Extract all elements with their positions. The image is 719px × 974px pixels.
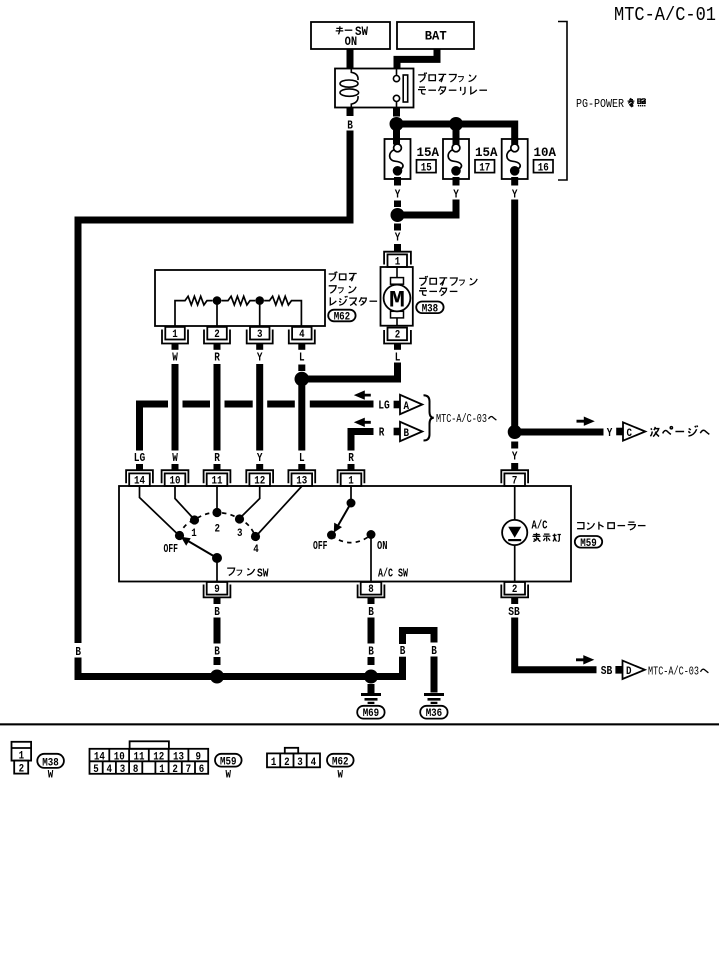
resistor node dot pin2: [213, 296, 222, 305]
connector oval M59 label: [575, 536, 602, 548]
relay label ブロアファンモーターリレー: [418, 72, 476, 82]
connector diagram M59: [90, 741, 209, 774]
connector diagram M62: [267, 748, 320, 768]
wire key SW to relay coil: [347, 49, 354, 70]
wire stub pin7: [511, 463, 518, 470]
svg-text:LG: LG: [134, 451, 146, 465]
wire branch top: [403, 631, 435, 645]
wire left bottom to ground bus: [78, 658, 371, 677]
wire L dash: [298, 365, 305, 372]
fan switch dashed selector arc: [180, 513, 256, 537]
resistor pin 3: [247, 327, 273, 344]
blower fan motor M1: [381, 267, 413, 326]
svg-text:4: 4: [299, 329, 305, 341]
connector diagram M38: [12, 742, 32, 774]
node junction dot motor feed: [391, 208, 405, 222]
connector oval M38: [416, 302, 443, 314]
svg-text:OFF: OFF: [313, 539, 328, 553]
wire LG horizontal with crossing gaps: [140, 404, 169, 451]
wire Y dash below node: [511, 442, 518, 449]
node ground bus dot 2: [364, 670, 378, 684]
blower fan resistor box M62: [155, 270, 325, 326]
triangle connector C: [623, 422, 645, 440]
pin 11 top: [204, 470, 231, 486]
pin 14 top: [126, 470, 153, 486]
svg-text:1: 1: [348, 475, 354, 487]
label ファンSW: [227, 568, 254, 575]
battery box BAT: [397, 22, 474, 49]
svg-text:11: 11: [134, 751, 145, 763]
fuse F15 15A: [385, 139, 411, 179]
control box M59 controller: [119, 486, 571, 582]
fuse F16 10A: [502, 139, 528, 179]
svg-text:1: 1: [271, 757, 277, 769]
svg-text:M62: M62: [332, 757, 349, 769]
svg-text:6: 6: [199, 764, 205, 776]
wire stub to fuse 1: [393, 124, 400, 145]
svg-text:Y: Y: [395, 188, 401, 202]
wire fuse feed bus: [397, 124, 515, 145]
connector oval M62 label: [328, 310, 355, 322]
relay K1 blower fan motor relay box: [335, 69, 414, 108]
svg-text:5: 5: [93, 764, 99, 776]
svg-text:L: L: [299, 351, 305, 365]
arrow right above SB: [576, 655, 594, 664]
resistor pin 1: [162, 327, 188, 344]
A/C switch dashed arc: [332, 535, 372, 543]
node L junction dot: [295, 372, 310, 387]
svg-text:B: B: [368, 605, 374, 619]
resistor pin stubs: [172, 344, 179, 350]
svg-text:MTC-A/C-03: MTC-A/C-03: [648, 665, 699, 679]
svg-text:D: D: [626, 666, 632, 678]
svg-text:16: 16: [538, 162, 549, 174]
svg-text:B: B: [214, 605, 220, 619]
svg-text:Y: Y: [512, 450, 518, 464]
wire dash below junction: [394, 224, 401, 231]
pin 10 top: [162, 470, 189, 486]
motor pin2 stub: [394, 344, 401, 350]
svg-text:13: 13: [173, 751, 184, 763]
svg-text:M36: M36: [426, 708, 443, 720]
svg-text:PG-POWER: PG-POWER: [576, 97, 624, 111]
svg-text:M38: M38: [422, 303, 439, 315]
arrow right above Y: [577, 417, 595, 426]
svg-text:W: W: [172, 451, 178, 465]
svg-text:BAT: BAT: [425, 29, 447, 44]
svg-text:ON: ON: [377, 539, 388, 553]
svg-text:W: W: [48, 770, 54, 782]
relay contact stub: [393, 108, 400, 117]
svg-text:M: M: [389, 288, 405, 314]
svg-text:4: 4: [253, 544, 259, 556]
svg-text:M69: M69: [363, 708, 380, 720]
pin9 wire stub: [214, 597, 221, 604]
svg-text:9: 9: [214, 584, 220, 596]
svg-text:Y: Y: [395, 231, 401, 245]
svg-text:7: 7: [186, 764, 192, 776]
svg-text:8: 8: [368, 584, 374, 596]
svg-text:Y: Y: [257, 351, 263, 365]
label 次ページへ: [650, 425, 709, 436]
svg-text:C: C: [627, 428, 633, 440]
wire Y vertical: [256, 364, 263, 451]
label コントローラー: [577, 522, 645, 530]
svg-text:1: 1: [191, 528, 197, 540]
wire L vertical: [298, 379, 305, 451]
svg-text:Y: Y: [453, 188, 459, 202]
pin 13 top: [288, 470, 315, 486]
svg-text:B: B: [368, 645, 374, 659]
ground oval M36: [420, 706, 447, 719]
wire B pin9 segment: [214, 618, 221, 644]
svg-text:14: 14: [134, 475, 145, 487]
arrow left above LG: [354, 390, 371, 399]
brace to MTC-A/C-03: [424, 395, 434, 440]
svg-text:L: L: [299, 451, 305, 465]
fuse 3 bottom stub: [511, 177, 518, 186]
wire R from pin1 to arrow B: [351, 432, 374, 451]
svg-text:10A: 10A: [534, 146, 557, 160]
ground oval M69: [357, 706, 384, 719]
wire B relay to left side down: [78, 131, 350, 644]
svg-text:2: 2: [19, 764, 25, 776]
svg-text:B: B: [404, 428, 410, 440]
motor M38 pin 1 connector: [384, 252, 411, 267]
wire branch to M36 ground: [371, 664, 403, 677]
svg-text:15: 15: [421, 162, 432, 174]
A/C switch contacts: [327, 531, 336, 540]
svg-text:A/C SW: A/C SW: [378, 566, 409, 580]
pin2 wire stub: [511, 597, 518, 604]
svg-text:Y: Y: [512, 188, 518, 202]
wire stubs above control box pins: [136, 464, 143, 470]
svg-text:2: 2: [512, 584, 518, 596]
svg-text:3: 3: [297, 757, 303, 769]
svg-text:2: 2: [215, 524, 221, 536]
svg-text:B: B: [400, 644, 406, 658]
A/C switch wire from pin1: [350, 486, 352, 500]
svg-text:W: W: [172, 351, 178, 365]
svg-text:R: R: [214, 351, 220, 365]
node Y junction dot: [508, 425, 522, 439]
svg-text:14: 14: [94, 751, 105, 763]
fuse F17 15A: [443, 139, 469, 179]
wire stub to fuse 2: [453, 124, 460, 145]
connector M38 oval: [37, 754, 64, 768]
svg-text:R: R: [214, 451, 220, 465]
svg-text:10: 10: [170, 475, 181, 487]
svg-text:3: 3: [237, 528, 243, 540]
connector M59 oval: [215, 754, 242, 767]
svg-text:3: 3: [120, 764, 126, 776]
svg-text:A/C: A/C: [532, 519, 548, 533]
triangle connector B: [400, 422, 422, 441]
pin 2 bottom: [501, 582, 528, 597]
wire B pin8 segment: [368, 618, 375, 644]
wire R vertical: [214, 364, 221, 451]
wire stub to motor pin1: [394, 244, 401, 252]
svg-text:17: 17: [479, 162, 490, 174]
svg-text:SB: SB: [601, 664, 613, 678]
pin 9 bottom: [204, 582, 231, 597]
svg-text:4: 4: [107, 764, 113, 776]
wire dash branch: [399, 657, 406, 664]
triangle connector A: [400, 395, 422, 414]
svg-text:1: 1: [159, 764, 165, 776]
motor M38 pin 2 connector: [384, 328, 411, 344]
relay coil output stub: [347, 108, 354, 117]
svg-text:12: 12: [254, 475, 265, 487]
separator line: [0, 723, 719, 725]
resistor pin 2: [204, 327, 230, 344]
svg-text:Y: Y: [607, 426, 613, 440]
svg-text:M62: M62: [334, 312, 351, 324]
svg-text:L: L: [395, 351, 401, 365]
A/C switch wiper arrow: [338, 503, 352, 527]
svg-text:4: 4: [311, 757, 317, 769]
svg-text:A: A: [404, 401, 410, 413]
wire motor L down-left to node: [302, 363, 398, 380]
pin 1 top: [338, 470, 365, 486]
wire branch right down: [431, 657, 438, 693]
svg-text:W: W: [226, 770, 232, 782]
svg-text:2: 2: [284, 757, 290, 769]
svg-text:MTC-A/C-03: MTC-A/C-03: [436, 412, 487, 426]
svg-text:B: B: [347, 119, 353, 133]
pin 7 top: [501, 470, 528, 486]
svg-text:9: 9: [196, 751, 202, 763]
svg-text:7: 7: [512, 475, 518, 487]
pin 12 top: [246, 470, 273, 486]
A/C ON to pin8: [370, 535, 372, 583]
svg-text:2: 2: [172, 764, 178, 776]
svg-text:12: 12: [153, 751, 164, 763]
resistor chain internal: [175, 296, 301, 326]
svg-text:11: 11: [212, 475, 223, 487]
svg-text:M38: M38: [42, 757, 59, 769]
svg-text:M59: M59: [220, 757, 237, 769]
svg-text:ON: ON: [345, 34, 358, 49]
motor label ブロアファンモーター: [419, 276, 477, 286]
svg-text:MTC-A/C-01: MTC-A/C-01: [614, 4, 716, 26]
wire dash pin8: [368, 657, 375, 665]
resistor pin 4: [289, 327, 315, 344]
svg-text:Y: Y: [257, 451, 263, 465]
wire BAT to relay switch: [397, 49, 437, 70]
node ground bus dot 1: [210, 670, 224, 684]
triangle connector D: [623, 661, 645, 679]
ground symbol M36: [424, 693, 444, 696]
svg-text:2: 2: [214, 329, 220, 341]
svg-text:1: 1: [172, 329, 178, 341]
arrow left above R: [354, 418, 371, 427]
svg-text:OFF: OFF: [164, 542, 179, 556]
fuse 1 bottom stub: [394, 177, 401, 186]
wire SB down and right: [515, 618, 597, 670]
svg-text:10: 10: [114, 751, 125, 763]
wire dash fuse1: [394, 201, 401, 208]
relay coil: [340, 69, 359, 108]
key switch box キーSW ON: [311, 22, 390, 49]
svg-text:M59: M59: [580, 538, 597, 550]
wire Y to next page arrow: [515, 429, 604, 436]
pin8 wire stub: [368, 597, 375, 604]
svg-text:B: B: [431, 644, 437, 658]
svg-text:2: 2: [395, 330, 401, 342]
fuse 2 bottom stub: [453, 177, 460, 186]
resistor node dot pin3: [255, 296, 264, 305]
svg-text:13: 13: [296, 475, 307, 487]
svg-text:W: W: [338, 770, 344, 782]
pin 8 bottom: [358, 582, 385, 597]
PG-POWER bracket: [558, 22, 567, 181]
svg-text:1: 1: [19, 751, 25, 763]
A/C indicator LED: [514, 486, 516, 520]
fan switch wiper arrow: [189, 541, 218, 558]
svg-text:B: B: [214, 645, 220, 659]
relay contact: [393, 69, 407, 108]
ground symbol M69: [368, 684, 375, 693]
node junction dot 2: [449, 117, 463, 131]
svg-text:R: R: [348, 451, 354, 465]
wire fuse2 to junction: [398, 200, 457, 216]
svg-text:B: B: [75, 645, 81, 659]
svg-text:3: 3: [257, 329, 263, 341]
node junction dot 1: [390, 117, 404, 131]
svg-text:R: R: [379, 426, 385, 440]
fan switch contact dots: [175, 531, 184, 540]
svg-text:15A: 15A: [475, 146, 498, 160]
fan switch common node: [212, 553, 222, 563]
wire W vertical: [172, 364, 179, 451]
connector M62 oval: [327, 754, 354, 767]
svg-text:SB: SB: [508, 605, 520, 619]
fan switch wires from pins: [140, 486, 303, 535]
svg-text:15A: 15A: [417, 146, 440, 160]
wire Y fuse3 long vertical: [511, 200, 518, 433]
svg-text:8: 8: [133, 764, 139, 776]
svg-text:LG: LG: [378, 398, 390, 412]
resistor label ブロア ファン レジスター: [329, 272, 357, 282]
wire dash pin9: [214, 657, 221, 665]
svg-text:SW: SW: [257, 566, 269, 580]
fan switch to pin9: [216, 558, 218, 582]
